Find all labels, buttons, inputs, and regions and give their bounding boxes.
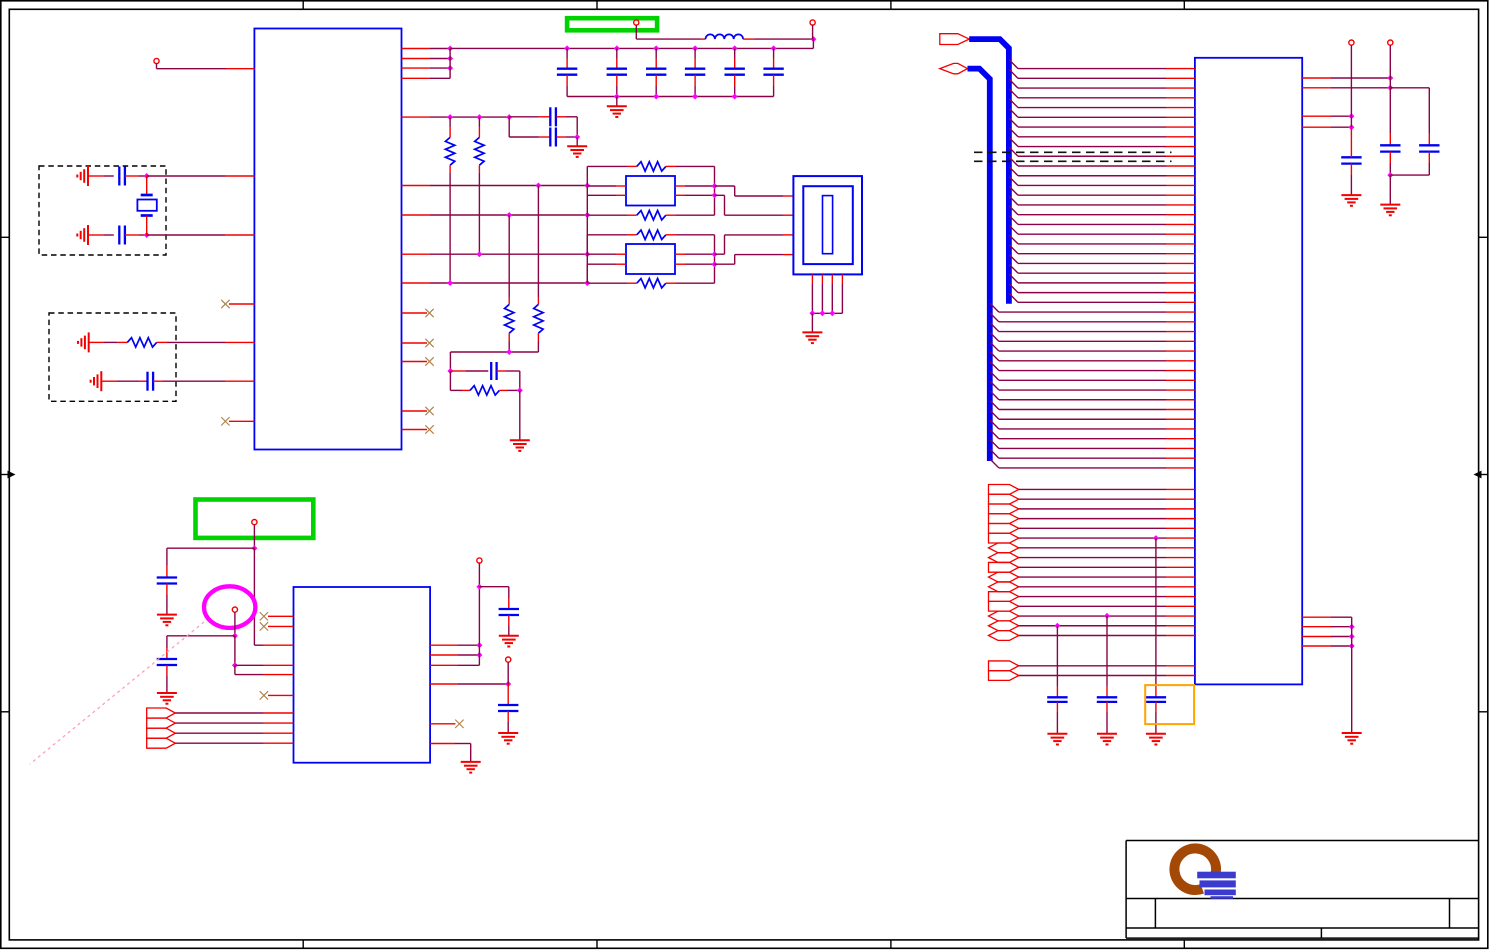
IO tag bbox=[147, 718, 176, 728]
wire bbox=[587, 185, 616, 187]
annotation box (green) bbox=[196, 500, 314, 538]
wire bbox=[402, 77, 431, 79]
ground bbox=[1341, 194, 1361, 196]
wire bbox=[1019, 605, 1166, 607]
wire bbox=[1009, 255, 1018, 264]
wire bbox=[537, 341, 539, 352]
wire bbox=[1009, 109, 1018, 118]
wire bbox=[537, 186, 539, 298]
wire bbox=[1019, 566, 1166, 568]
junction bbox=[1348, 124, 1354, 130]
junction bbox=[232, 633, 238, 639]
wire bbox=[1009, 89, 1018, 98]
junction bbox=[476, 251, 482, 257]
junction bbox=[505, 681, 511, 687]
wire bbox=[1019, 508, 1166, 510]
wire bus right upper bbox=[714, 166, 716, 215]
capacitor bbox=[1155, 687, 1157, 698]
wire bbox=[1019, 537, 1166, 539]
resistor R6 bbox=[449, 371, 451, 390]
wire bbox=[990, 411, 999, 420]
ground bbox=[100, 371, 102, 391]
annotation box (green) bbox=[567, 18, 657, 30]
wire bbox=[990, 391, 999, 400]
wire bbox=[1389, 175, 1391, 205]
junction bbox=[476, 114, 482, 120]
junction bbox=[712, 261, 718, 267]
junction bbox=[517, 387, 523, 393]
wire bbox=[1302, 126, 1331, 128]
resistor R2 bbox=[449, 117, 451, 127]
IC U2 bbox=[1195, 58, 1302, 685]
wire bbox=[402, 116, 431, 118]
IO tag bbox=[989, 485, 1019, 495]
capacitor C32 bbox=[1428, 88, 1430, 133]
capacitor bbox=[1106, 687, 1108, 698]
wire bbox=[715, 253, 725, 255]
wire bbox=[430, 654, 458, 656]
wire bbox=[1009, 167, 1018, 176]
junction bbox=[564, 45, 570, 51]
power pin P7 bbox=[506, 657, 511, 662]
wire bbox=[1019, 488, 1166, 490]
wire bbox=[147, 175, 225, 177]
no-connect pin bbox=[402, 342, 428, 344]
junction bbox=[809, 310, 815, 316]
wire bbox=[402, 253, 431, 255]
ground bbox=[157, 614, 177, 616]
IO tag bbox=[989, 494, 1019, 504]
ground bbox=[499, 635, 519, 637]
wire bbox=[125, 234, 139, 236]
junction bbox=[447, 46, 453, 52]
no-connect pin bbox=[402, 312, 428, 314]
wire bbox=[167, 547, 255, 549]
bus (thick) bbox=[968, 69, 990, 461]
wire bbox=[1009, 235, 1018, 244]
wire bbox=[402, 214, 431, 216]
ground bbox=[157, 692, 177, 694]
wire bbox=[450, 351, 538, 353]
wire bbox=[990, 342, 999, 351]
wire bbox=[1009, 196, 1018, 205]
junction bbox=[732, 94, 738, 100]
wire ground rail bbox=[567, 96, 774, 98]
capacitor C11 bbox=[616, 48, 618, 58]
junction bbox=[692, 94, 698, 100]
wire bbox=[402, 282, 431, 284]
ground bbox=[1097, 733, 1117, 735]
power pin P8 bbox=[1349, 40, 1354, 45]
wire bbox=[1351, 617, 1353, 733]
junction bbox=[1349, 643, 1355, 649]
wire bbox=[990, 362, 999, 371]
dashed box crystal circuit bbox=[39, 166, 166, 255]
IO tag bbox=[989, 504, 1019, 514]
no-connect pin bbox=[430, 723, 455, 725]
no-connect pin bbox=[402, 361, 428, 363]
IO tag bbox=[989, 514, 1019, 524]
annotation dashed line bbox=[974, 160, 1172, 162]
wire bbox=[1302, 645, 1331, 647]
highlight ellipse (magenta) bbox=[204, 586, 255, 628]
junction bbox=[614, 45, 620, 51]
pin bbox=[811, 274, 813, 283]
junction bbox=[692, 45, 698, 51]
wire bbox=[990, 430, 999, 439]
wire bbox=[1019, 518, 1166, 520]
wire bbox=[990, 381, 999, 390]
wire bbox=[101, 380, 117, 382]
ground bbox=[88, 332, 90, 352]
junction bbox=[506, 114, 512, 120]
wire bbox=[1019, 665, 1166, 667]
wire bbox=[167, 341, 225, 343]
common-mode choke FL2 bbox=[626, 244, 675, 274]
junction bbox=[535, 183, 541, 189]
wire bbox=[507, 662, 509, 684]
wire VDD rail bbox=[450, 47, 813, 49]
wire bbox=[430, 644, 458, 646]
wire bbox=[1009, 128, 1018, 137]
capacitor C12 bbox=[655, 48, 657, 58]
wire bbox=[163, 380, 225, 382]
wire bbox=[1009, 157, 1018, 166]
IO tag bbox=[147, 708, 176, 718]
wire bbox=[1019, 527, 1166, 529]
capacitor C22 bbox=[508, 598, 510, 609]
junction bbox=[1387, 85, 1393, 91]
IC U3 bbox=[294, 587, 431, 763]
node XTAL1 bbox=[144, 173, 150, 179]
capacitor C14 bbox=[734, 48, 736, 58]
junction bbox=[653, 45, 659, 51]
capacitor C23 bbox=[507, 684, 509, 694]
wire bbox=[1155, 538, 1157, 687]
connector J1 bbox=[793, 176, 862, 274]
wire bbox=[234, 612, 236, 636]
wire bbox=[1009, 274, 1018, 283]
IO tag bbox=[989, 621, 1019, 631]
wire bbox=[1019, 615, 1166, 617]
crystal Y1 bbox=[146, 176, 148, 195]
pin bbox=[821, 274, 823, 283]
bidirectional connector tag bbox=[940, 63, 968, 73]
wire bbox=[990, 313, 999, 322]
wire bbox=[1019, 586, 1166, 588]
junction bbox=[614, 94, 620, 100]
junction bbox=[447, 114, 453, 120]
capacitor C2 bbox=[118, 226, 120, 245]
ground bbox=[87, 225, 89, 245]
wire bbox=[990, 303, 999, 312]
wire bbox=[1009, 99, 1018, 108]
IO tag bbox=[989, 572, 1019, 582]
junction bbox=[1348, 113, 1354, 119]
no-connect pin bbox=[402, 410, 428, 412]
ground bbox=[811, 313, 813, 332]
wire bbox=[635, 25, 637, 39]
wire bbox=[479, 586, 508, 588]
wire bbox=[1056, 626, 1058, 687]
wire bbox=[586, 264, 588, 283]
capacitor C31 bbox=[1389, 45, 1391, 78]
wire bbox=[1009, 187, 1018, 196]
junction bbox=[712, 183, 718, 189]
junction bbox=[476, 642, 482, 648]
wire bbox=[587, 253, 616, 255]
wire bbox=[1019, 635, 1166, 637]
wire bbox=[1009, 70, 1018, 79]
junction bbox=[653, 94, 659, 100]
wire bbox=[715, 194, 725, 196]
wire bbox=[234, 636, 236, 666]
wire bbox=[449, 49, 451, 79]
wire bbox=[1390, 87, 1429, 89]
power pin P3 bbox=[810, 20, 815, 25]
resistor R4 bbox=[537, 297, 539, 304]
wire bbox=[508, 215, 510, 297]
junction bbox=[712, 192, 718, 198]
capacitor C20 bbox=[166, 565, 168, 578]
power pin P1 bbox=[154, 58, 159, 63]
capacitor C15 bbox=[773, 48, 775, 58]
wire bbox=[990, 401, 999, 410]
junction bbox=[584, 280, 590, 286]
IO tag bbox=[989, 523, 1019, 533]
junction bbox=[506, 212, 512, 218]
capacitor C5 bbox=[508, 117, 510, 137]
IO tag bbox=[989, 631, 1019, 641]
wire bbox=[1019, 547, 1166, 549]
wire bbox=[1019, 596, 1166, 598]
wire bus right lower bbox=[714, 235, 716, 283]
input connector tag bbox=[940, 34, 969, 45]
capacitor C6 bbox=[450, 370, 466, 372]
wire bbox=[449, 173, 451, 283]
common-mode choke FL1 bbox=[626, 176, 675, 206]
wire bbox=[1009, 60, 1018, 69]
IO tag bbox=[989, 543, 1019, 553]
junction bbox=[476, 652, 482, 658]
wire bbox=[1009, 177, 1018, 186]
wire bbox=[1009, 118, 1018, 127]
wire bbox=[125, 175, 139, 177]
wire bbox=[478, 173, 480, 255]
resistor R3 bbox=[478, 117, 480, 127]
ground bbox=[1047, 733, 1067, 735]
capacitor C1 bbox=[118, 167, 120, 186]
logo bbox=[1174, 848, 1216, 890]
bus (thick) bbox=[969, 39, 1009, 304]
ground bbox=[498, 732, 518, 734]
wire bbox=[1019, 498, 1166, 500]
wire bbox=[1009, 79, 1018, 88]
resistor R8 bbox=[587, 214, 627, 216]
capacitor C4 bbox=[509, 116, 539, 118]
wire bbox=[990, 459, 999, 468]
junction bbox=[1104, 613, 1110, 619]
capacitor C13 bbox=[694, 48, 696, 58]
wire bbox=[175, 742, 264, 744]
wire bbox=[1009, 206, 1018, 215]
junction bbox=[251, 545, 257, 551]
no-connect pin bbox=[229, 420, 254, 422]
resistor R10 bbox=[587, 282, 627, 284]
wire bbox=[715, 185, 735, 187]
power pin P2 bbox=[634, 20, 639, 25]
junction bbox=[232, 662, 238, 668]
junction bbox=[476, 584, 482, 590]
pin bbox=[831, 274, 833, 283]
wire bbox=[755, 38, 814, 40]
resistor R1 bbox=[117, 341, 127, 343]
wire bbox=[430, 664, 458, 666]
IO tag bbox=[989, 671, 1019, 681]
wire bbox=[156, 64, 158, 69]
wire bbox=[253, 525, 255, 549]
junction bbox=[584, 212, 590, 218]
IO tag bbox=[989, 553, 1019, 563]
wire bbox=[402, 58, 431, 60]
wire bbox=[812, 25, 814, 39]
junction bbox=[819, 310, 825, 316]
annotation dashed line bbox=[974, 151, 1172, 153]
junction bbox=[712, 251, 718, 257]
capacitor C10 bbox=[566, 48, 568, 58]
junction bbox=[829, 310, 835, 316]
IO tag bbox=[147, 728, 176, 738]
IO tag bbox=[989, 611, 1019, 621]
junction bbox=[1387, 172, 1393, 178]
power pin P5 bbox=[232, 607, 237, 612]
power pin P6 bbox=[477, 558, 482, 563]
wire bbox=[88, 175, 104, 177]
node XTAL2 bbox=[144, 232, 150, 238]
wire bbox=[1302, 87, 1331, 89]
wire bbox=[1009, 264, 1018, 273]
ground bbox=[1146, 733, 1166, 735]
wire bbox=[1302, 616, 1331, 618]
dashed box RC network bbox=[49, 313, 176, 401]
IO tag bbox=[989, 582, 1019, 592]
wire bbox=[990, 372, 999, 381]
junction bbox=[810, 36, 816, 42]
ground bbox=[87, 166, 89, 186]
wire bbox=[175, 712, 264, 714]
ground bbox=[1342, 732, 1362, 734]
highlight box (orange) bbox=[1145, 685, 1194, 724]
resistor R7 bbox=[587, 165, 627, 167]
power pin P4 bbox=[252, 520, 257, 525]
junction bbox=[447, 56, 453, 62]
ground bbox=[519, 390, 521, 440]
wire bbox=[586, 235, 588, 254]
wire bbox=[1019, 625, 1166, 627]
IO tag bbox=[989, 601, 1019, 611]
wire bbox=[990, 440, 999, 449]
junction bbox=[1349, 634, 1355, 640]
wire bbox=[147, 234, 225, 236]
wire bbox=[1009, 216, 1018, 225]
junction bbox=[584, 251, 590, 257]
wire bbox=[990, 420, 999, 429]
junction bbox=[447, 65, 453, 71]
inductor L1 bbox=[701, 38, 706, 40]
ground bbox=[576, 137, 578, 146]
wire bbox=[175, 722, 264, 724]
junction bbox=[771, 45, 777, 51]
wire bbox=[1009, 138, 1018, 147]
wire bbox=[1302, 626, 1331, 628]
wire bbox=[89, 341, 104, 343]
wire bbox=[1019, 576, 1166, 578]
wire bbox=[811, 284, 813, 314]
wire bbox=[478, 587, 480, 666]
junction bbox=[447, 368, 453, 374]
wire bbox=[167, 635, 235, 637]
wire bbox=[1009, 148, 1018, 157]
wire bus left bbox=[586, 166, 588, 283]
junction bbox=[574, 134, 580, 140]
dashed leader (pink) bbox=[30, 622, 204, 764]
wire bbox=[990, 323, 999, 332]
ground bbox=[616, 97, 618, 107]
resistor R9 bbox=[587, 234, 627, 236]
IO tag bbox=[989, 562, 1019, 572]
capacitor C21 bbox=[166, 648, 168, 659]
IO tag bbox=[147, 738, 176, 748]
wire bbox=[478, 563, 480, 587]
no-connect pin bbox=[268, 625, 294, 627]
junction bbox=[1387, 75, 1393, 81]
IO tag bbox=[989, 592, 1019, 602]
no-connect pin bbox=[268, 615, 294, 617]
wire bbox=[430, 683, 458, 685]
resistor R5 bbox=[508, 297, 510, 304]
junction bbox=[1054, 623, 1060, 629]
junction bbox=[1153, 535, 1159, 541]
wire bbox=[1302, 636, 1331, 638]
IO tag bbox=[989, 661, 1019, 671]
wire bbox=[586, 194, 588, 196]
wire bbox=[1009, 245, 1018, 254]
pin bbox=[841, 274, 843, 283]
ground bbox=[1380, 204, 1400, 206]
wire bbox=[508, 341, 510, 352]
wire bbox=[234, 665, 236, 674]
no-connect pin bbox=[402, 429, 428, 431]
wire bbox=[402, 185, 431, 187]
wire bbox=[715, 263, 735, 265]
wire bbox=[1019, 557, 1166, 559]
wire bbox=[1302, 115, 1331, 117]
wire bbox=[1350, 45, 1352, 116]
wire bbox=[235, 664, 264, 666]
wire bbox=[430, 743, 455, 745]
wire bbox=[175, 732, 264, 734]
wire bbox=[990, 352, 999, 361]
capacitor bbox=[1056, 687, 1058, 698]
wire bbox=[1009, 284, 1018, 293]
IC U1 bbox=[254, 29, 401, 450]
junction bbox=[447, 280, 453, 286]
wire bbox=[990, 450, 999, 459]
wire bbox=[402, 67, 431, 69]
wire bbox=[253, 548, 255, 645]
junction bbox=[1349, 624, 1355, 630]
capacitor C3 bbox=[139, 380, 148, 382]
